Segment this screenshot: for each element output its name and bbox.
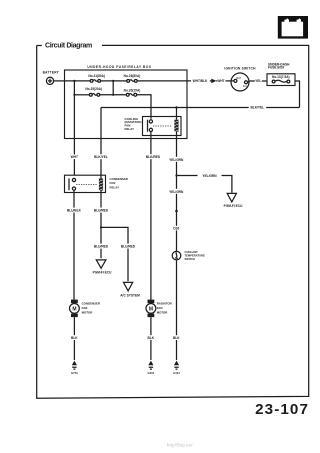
wire BLK/RED column: [150, 132, 152, 300]
terminal pins: [149, 120, 152, 123]
arrow A/C system: [124, 282, 133, 291]
mech link dashed: [153, 125, 172, 127]
svg-text:FAN: FAN: [157, 306, 163, 310]
contact bar: [68, 178, 70, 190]
svg-text:UNDER-HOOD FUSE/RELAY BOX: UNDER-HOOD FUSE/RELAY BOX: [87, 65, 152, 69]
svg-text:G101: G101: [173, 371, 180, 375]
svg-text:http//bsp.ee/: http//bsp.ee/: [167, 443, 193, 448]
wire under-dash to BLK/YEL run: [295, 81, 300, 108]
wire BLK/YEL down to condenser relay coil: [100, 108, 102, 179]
svg-text:MOTOR: MOTOR: [157, 310, 169, 314]
svg-text:BLK: BLK: [173, 336, 180, 340]
cooling fan relay: [125, 108, 182, 136]
coil: [174, 120, 178, 132]
ground G751: [71, 361, 78, 375]
wire row1 to row2 branch A (continues down as WHT): [73, 81, 75, 175]
svg-text:IGNITION SWITCH: IGNITION SWITCH: [224, 66, 256, 70]
svg-text:No.13(7.5A): No.13(7.5A): [272, 75, 290, 79]
contact bar: [147, 120, 149, 132]
node row1-B: [112, 80, 114, 82]
svg-text:BLK: BLK: [71, 336, 78, 340]
wire branch to PGM-FI ECU: [177, 176, 232, 193]
terminal pins: [72, 178, 75, 181]
svg-text:BLK/YEL: BLK/YEL: [94, 155, 108, 159]
wire YEL to under-dash box: [262, 80, 267, 82]
page frame: [37, 45, 309, 398]
svg-text:BLU/RED: BLU/RED: [94, 209, 109, 213]
svg-text:CONDENSER: CONDENSER: [110, 177, 129, 181]
svg-text:RADIATOR: RADIATOR: [157, 302, 173, 306]
fuse No.41(80A): [88, 74, 105, 82]
svg-text:G751: G751: [71, 371, 78, 375]
svg-text:FAN: FAN: [110, 181, 116, 185]
wire temp switch to ground: [176, 260, 178, 360]
svg-text:YEL/GRN: YEL/GRN: [169, 190, 184, 194]
svg-text:RELAY: RELAY: [125, 127, 135, 131]
wire battery to box: [54, 80, 65, 82]
fuse No.26(80A): [124, 74, 141, 82]
connector arrow: [210, 80, 217, 82]
fuse No.25(20A): [85, 87, 102, 96]
svg-text:PGM-FI ECU: PGM-FI ECU: [93, 271, 112, 275]
condenser fan relay: [65, 175, 129, 192]
svg-text:WHT: WHT: [71, 155, 78, 159]
wire row2 mid: [100, 94, 127, 96]
svg-text:23-107: 23-107: [255, 401, 309, 418]
under-hood fuse/relay box: [65, 65, 188, 138]
wire BLK/YEL horizontal: [101, 107, 300, 109]
wire row2 to cooling fan relay: [137, 95, 151, 119]
wire BLU/RED column: [100, 191, 102, 259]
wire YEL/GRN column: [176, 132, 178, 252]
arrow PGM-FI ECU right: [227, 193, 236, 202]
svg-text:TEMPERATURE: TEMPERATURE: [185, 254, 205, 258]
svg-text:WHT: WHT: [217, 79, 224, 83]
svg-text:No.26(80A): No.26(80A): [124, 74, 141, 78]
wire row2: [74, 94, 89, 96]
svg-text:FUSE BOX: FUSE BOX: [268, 66, 285, 70]
connector dot: [175, 210, 178, 213]
coil: [99, 179, 103, 191]
svg-text:M: M: [72, 306, 76, 312]
radiator fan motor: [146, 300, 173, 318]
svg-text:FAN: FAN: [82, 306, 88, 310]
node BLU/RED branch: [100, 226, 102, 228]
svg-text:BLU/RED: BLU/RED: [121, 245, 136, 249]
svg-text:No.30(15A): No.30(15A): [124, 89, 141, 93]
wire to ignition switch: [226, 80, 234, 82]
svg-text:No.41(80A): No.41(80A): [88, 74, 105, 78]
svg-text:MOTOR: MOTOR: [82, 310, 94, 314]
fuse No.30(15A): [124, 89, 141, 97]
ground G101: [173, 361, 180, 375]
ignition switch: [224, 66, 256, 91]
node coil top cooling relay: [175, 106, 177, 108]
svg-text:D16: D16: [173, 227, 179, 231]
svg-text:BLK/RED: BLK/RED: [146, 155, 161, 159]
svg-text:No.25(20A): No.25(20A): [85, 87, 102, 91]
svg-text:BLU/BLK: BLU/BLK: [67, 209, 82, 213]
condenser fan motor: [70, 300, 101, 318]
battery: [43, 70, 60, 84]
svg-text:SWITCH: SWITCH: [185, 257, 196, 261]
wire condenser motor to ground: [73, 317, 75, 360]
battery chapter icon: [278, 16, 308, 39]
fuse No.13: [272, 80, 275, 83]
coolant temperature switch: [172, 250, 205, 261]
svg-text:YEL/GRN: YEL/GRN: [202, 174, 217, 178]
node row2-A: [73, 94, 75, 96]
mech link dashed: [76, 183, 97, 185]
svg-text:M: M: [149, 306, 153, 312]
wire ignition to YEL: [249, 80, 255, 82]
svg-text:BLK: BLK: [148, 336, 155, 340]
svg-text:G201: G201: [147, 371, 154, 375]
svg-text:Circuit Diagram: Circuit Diagram: [45, 42, 92, 49]
under-dash fuse box: [267, 63, 295, 86]
svg-text:A/C SYSTEM: A/C SYSTEM: [120, 294, 140, 298]
wire BLU/BLK column: [73, 190, 75, 299]
svg-text:BLK/YEL: BLK/YEL: [250, 105, 264, 109]
svg-text:BAT: BAT: [236, 76, 241, 80]
svg-text:RELAY: RELAY: [110, 186, 120, 190]
svg-text:BATTERY: BATTERY: [43, 70, 60, 74]
wire row1 to row2 branch B: [112, 81, 114, 95]
wire WHT label: [69, 155, 80, 160]
node YEL/GRN branch: [175, 174, 177, 176]
svg-text:YEL/GRN: YEL/GRN: [169, 158, 184, 162]
coil top wire: [176, 108, 178, 120]
node row2-B: [112, 94, 114, 96]
svg-text:PGM-FI ECU: PGM-FI ECU: [224, 204, 243, 208]
svg-text:COOLANT: COOLANT: [185, 250, 199, 254]
connector label D16: [172, 226, 182, 231]
svg-text:BLU/RED: BLU/RED: [94, 245, 109, 249]
arrow PGM-FI ECU left: [96, 260, 106, 268]
svg-text:YEL: YEL: [255, 79, 261, 83]
svg-text:CONDENSER: CONDENSER: [82, 302, 101, 306]
wire row1: [65, 80, 91, 82]
ground G201: [147, 361, 154, 375]
wire radiator motor to ground: [150, 317, 152, 360]
svg-text:IG2: IG2: [243, 84, 248, 88]
svg-text:WHT/BLK: WHT/BLK: [193, 79, 208, 83]
node row1-A: [73, 80, 75, 82]
wire branch to A/C: [101, 227, 128, 281]
wire row1 to ignition: [137, 80, 191, 82]
wire row1 mid: [101, 80, 127, 82]
